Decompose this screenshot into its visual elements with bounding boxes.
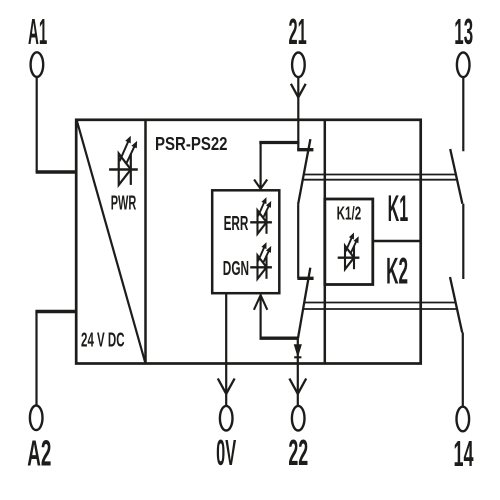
arrow into box on 21 wire — [291, 84, 306, 98]
LED K1/2 — [338, 233, 360, 270]
LED ERR — [250, 197, 272, 234]
contact 1 blade — [298, 139, 310, 204]
arrow into ERR/DGN bottom — [254, 295, 267, 310]
wire 13 down — [462, 77, 464, 151]
wire 0V from ERR/DGN bottom — [225, 293, 227, 406]
wire 21 down to contact — [297, 77, 299, 150]
terminal circle A2 — [30, 406, 43, 431]
svg-text:K2: K2 — [386, 250, 408, 291]
power supply diagonal — [77, 121, 145, 363]
svg-text:ERR: ERR — [224, 213, 249, 235]
contact 2 blade — [298, 268, 310, 339]
mechanical linkage double line upper — [304, 174, 456, 176]
logic/relay section divider — [324, 120, 327, 364]
wire A1 stem — [36, 77, 38, 172]
wire 22 down from junction — [297, 338, 299, 406]
ERR/DGN indicator box — [212, 190, 279, 293]
svg-text:K1: K1 — [388, 188, 409, 229]
LED PWR — [109, 136, 138, 185]
svg-text:A2: A2 — [27, 432, 51, 473]
contact 3 blade (NO, 13 path) — [450, 149, 462, 204]
svg-text:21: 21 — [289, 11, 307, 52]
LED DGN — [250, 242, 272, 279]
terminal circle 13 — [457, 53, 470, 78]
wire between left contacts — [297, 204, 299, 278]
wire A2 to box (thick) — [35, 310, 76, 313]
mechanical linkage double line lower — [304, 302, 455, 304]
svg-text:22: 22 — [288, 432, 308, 473]
power section divider — [144, 120, 147, 364]
wire A1 to box (thick) — [36, 170, 77, 173]
svg-text:13: 13 — [454, 11, 473, 52]
arrow out on 22 wire — [289, 379, 306, 394]
svg-text:14: 14 — [454, 433, 474, 474]
wire A2 stem — [35, 312, 37, 406]
svg-text:24 V DC: 24 V DC — [81, 329, 125, 351]
svg-text:PWR: PWR — [111, 193, 137, 215]
main enclosure box — [76, 120, 421, 364]
K1/2 indicator box — [325, 199, 373, 285]
terminal circle A1 — [31, 52, 44, 77]
K1/K2 cell divider — [373, 240, 421, 243]
wire 14 down — [462, 333, 464, 407]
svg-text:DGN: DGN — [223, 258, 249, 280]
terminal circle 21 — [292, 53, 305, 78]
wire between right contacts — [462, 204, 464, 279]
wire feedback up to ERR/DGN bottom — [260, 295, 262, 338]
wire junction to feedback (thick) — [260, 337, 299, 340]
svg-text:0V: 0V — [216, 432, 236, 473]
terminal circle 14 — [457, 407, 470, 432]
svg-text:K1/2: K1/2 — [337, 203, 362, 224]
diode on 22 wire — [294, 345, 301, 356]
contact 4 blade (NO) — [450, 277, 462, 333]
svg-text:PSR-PS22: PSR-PS22 — [155, 134, 228, 154]
arrow out on 0V wire — [218, 379, 235, 394]
contact 2 fixed tick (NC) — [297, 277, 313, 280]
arrow into ERR/DGN top — [254, 180, 267, 189]
terminal circle 22 — [292, 406, 305, 431]
contact 1 fixed tick (NC, 21 path) — [297, 148, 313, 151]
terminal circle 0V — [220, 406, 233, 431]
svg-text:A1: A1 — [28, 11, 47, 52]
wire branch to ERR/DGN (thick) — [259, 141, 299, 144]
wire down to ERR/DGN box — [260, 143, 262, 189]
